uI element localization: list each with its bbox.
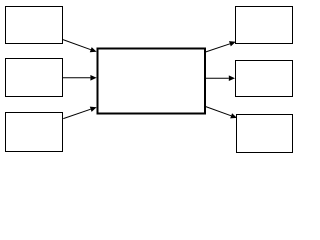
box R1 [236,7,293,44]
block diagram [0,0,305,165]
arrow center to R2 [206,75,236,81]
arrow L2 to center [63,75,97,81]
central box [98,49,206,114]
box R3 [237,115,293,153]
arrow center to R1 [206,41,236,52]
box R2 [236,61,293,97]
arrow L1 to center [63,40,97,53]
arrow center to R3 [206,107,237,119]
box L2 [6,59,63,97]
box L3 [6,113,63,152]
box L1 [6,7,63,44]
arrow L3 to center [63,107,96,119]
